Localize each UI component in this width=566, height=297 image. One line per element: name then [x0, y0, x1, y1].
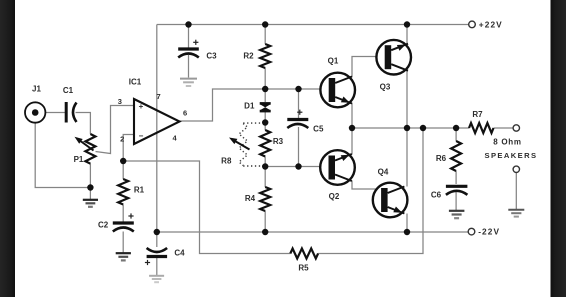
svg-text:3: 3	[118, 97, 122, 106]
svg-text:R6: R6	[436, 154, 447, 163]
svg-text:-22V: -22V	[478, 227, 500, 237]
svg-text:IC1: IC1	[129, 78, 142, 87]
svg-text:+22V: +22V	[479, 19, 503, 29]
svg-text:Q4: Q4	[378, 168, 389, 177]
svg-text:C5: C5	[313, 125, 324, 134]
svg-text:−: −	[139, 132, 144, 141]
svg-text:R3: R3	[273, 137, 284, 146]
svg-text:R1: R1	[134, 185, 145, 194]
svg-text:C3: C3	[206, 52, 217, 61]
svg-text:Q3: Q3	[380, 83, 391, 92]
svg-text:R7: R7	[472, 110, 483, 119]
svg-text:C1: C1	[63, 86, 74, 95]
svg-text:D1: D1	[244, 101, 255, 110]
svg-text:R2: R2	[243, 52, 254, 61]
svg-text:R8: R8	[221, 157, 232, 166]
svg-text:Q1: Q1	[328, 57, 339, 66]
svg-text:J1: J1	[32, 85, 41, 94]
svg-text:8 Ohm: 8 Ohm	[493, 138, 521, 147]
svg-text:6: 6	[183, 109, 187, 118]
svg-text:Q2: Q2	[329, 192, 340, 201]
svg-text:C2: C2	[98, 221, 109, 230]
svg-text:SPEAKERS: SPEAKERS	[485, 151, 538, 160]
svg-text:C4: C4	[174, 249, 185, 258]
svg-text:C6: C6	[431, 191, 442, 200]
svg-text:2: 2	[120, 135, 124, 144]
svg-text:R4: R4	[245, 194, 256, 203]
svg-text:7: 7	[157, 92, 161, 101]
svg-text:R5: R5	[298, 264, 309, 273]
svg-text:P1: P1	[74, 155, 84, 164]
svg-text:+: +	[139, 102, 144, 111]
